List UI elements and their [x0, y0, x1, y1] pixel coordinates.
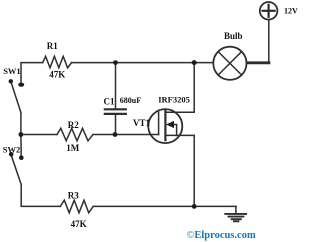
wire up to 12V supply [268, 20, 270, 63]
supply plus sign [263, 10, 275, 12]
svg-text:12V: 12V [284, 7, 298, 16]
bulb X stroke 1 [218, 52, 241, 75]
junction drain rail [192, 60, 197, 65]
svg-text:©Elprocus.com: ©Elprocus.com [187, 230, 256, 241]
supply circle 12V [260, 2, 278, 20]
svg-text:Bulb: Bulb [224, 31, 243, 41]
wire R3 to ground corner [93, 205, 236, 207]
wire R2 to MOSFET gate [93, 134, 159, 136]
svg-text:1M: 1M [66, 143, 80, 153]
ground stem [235, 206, 237, 213]
junction C1 bottom [113, 132, 118, 137]
capacitor C1 plates [105, 108, 126, 110]
ground bar 1 [225, 213, 246, 215]
ground bar 2 [229, 216, 244, 218]
MOSFET body arrow shaft [173, 125, 177, 136]
SW1 right contact [18, 83, 24, 87]
MOSFET drain line [165, 111, 194, 113]
MOSFET gate plate [158, 112, 160, 135]
wire capacitor C1 bottom lead [115, 115, 117, 135]
switch SW1 lever [11, 81, 21, 112]
svg-text:R2: R2 [68, 120, 79, 130]
svg-text:R1: R1 [47, 41, 58, 51]
wire bulb to supply corner (bold) [247, 61, 269, 64]
svg-text:SW1: SW1 [3, 66, 20, 76]
junction SW levers [19, 132, 24, 137]
MOSFET body arrow head [166, 121, 174, 128]
wire SW2 to bottom rail [21, 185, 60, 207]
svg-text:C1: C1 [104, 97, 115, 107]
MOSFET VT1 body circle [148, 109, 182, 143]
ground bar 3 [232, 218, 241, 220]
wire capacitor C1 top lead [115, 63, 117, 109]
ground bar 4 [234, 220, 239, 222]
SW2 left contact [9, 152, 14, 157]
wire drain up to lamp rail [193, 63, 195, 113]
junction C1 top [113, 60, 118, 65]
MOSFET channel line [164, 110, 166, 140]
wire SW1 lever to R2 junction [20, 112, 22, 134]
resistor R1 [43, 56, 72, 68]
resistor R2 [57, 128, 93, 141]
wire junction to R2 [21, 134, 57, 136]
MOSFET source line [165, 134, 194, 136]
bulb X stroke 2 [218, 52, 241, 75]
svg-text:SW2: SW2 [3, 144, 20, 154]
switch SW2 lever [11, 154, 21, 184]
wire source down to bottom rail [193, 135, 195, 206]
resistor R3 [60, 200, 93, 213]
svg-text:680uF: 680uF [120, 96, 141, 105]
svg-text:R3: R3 [68, 191, 79, 201]
SW2 right contact [19, 155, 24, 160]
svg-text:47K: 47K [71, 219, 87, 229]
svg-text:VT1: VT1 [133, 118, 151, 128]
svg-text:IRF3205: IRF3205 [158, 94, 190, 104]
wire junction down to SW2 [20, 135, 22, 156]
bulb circle [213, 47, 246, 80]
wire R1 to bulb [72, 62, 214, 64]
svg-text:47K: 47K [49, 69, 65, 79]
junction source bottom rail [192, 204, 197, 209]
SW1 left contact [9, 79, 13, 83]
wire top-left corner to R1 and down to SW1 [21, 63, 43, 84]
